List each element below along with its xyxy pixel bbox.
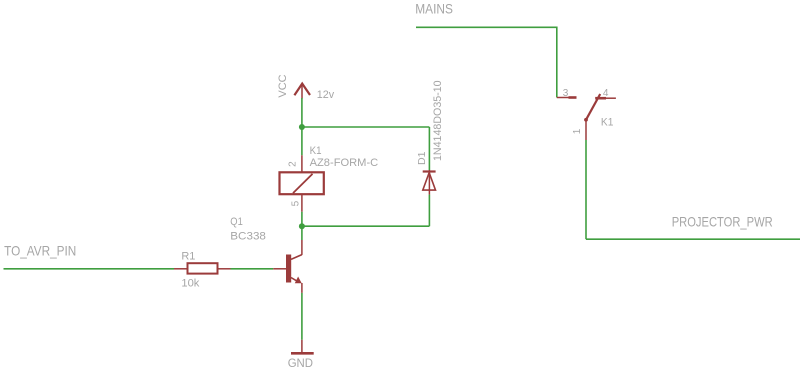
wire diode column top — [428, 127, 430, 170]
svg-text:MAINS: MAINS — [415, 0, 453, 16]
svg-text:K1: K1 — [310, 145, 322, 157]
wire resistor to base — [231, 268, 274, 270]
node junction top — [299, 124, 305, 130]
wire coil pin5 to collector — [301, 212, 303, 240]
svg-text:TO_AVR_PIN: TO_AVR_PIN — [4, 243, 76, 259]
svg-text:1N4148DO35-10: 1N4148DO35-10 — [432, 80, 444, 161]
svg-text:10k: 10k — [181, 278, 199, 290]
wire diode column bottom — [428, 195, 430, 227]
wire MAINS horizontal — [416, 26, 557, 28]
svg-text:Q1: Q1 — [230, 216, 243, 228]
wire PROJECTOR_PWR horizontal — [586, 238, 800, 240]
svg-text:5: 5 — [291, 200, 302, 206]
diode D1 — [423, 170, 436, 195]
svg-text:GND: GND — [288, 356, 314, 370]
svg-text:3: 3 — [563, 88, 569, 99]
transistor Q1 — [273, 240, 302, 293]
relay contact K1 — [557, 94, 616, 140]
wire base left — [4, 268, 175, 270]
wire contact pin1 down — [585, 140, 587, 239]
svg-text:AZ8-FORM-C: AZ8-FORM-C — [310, 157, 379, 169]
wire top horizontal to diode — [302, 126, 430, 128]
resistor R1 — [174, 263, 231, 273]
wire MAINS vertical — [556, 27, 558, 98]
svg-text:4: 4 — [603, 88, 609, 99]
relay coil K1 — [280, 155, 324, 212]
wire bottom horizontal — [302, 225, 430, 227]
svg-text:BC338: BC338 — [230, 231, 266, 243]
ground — [288, 340, 314, 370]
supply VCC — [277, 74, 310, 98]
svg-text:VCC: VCC — [277, 74, 289, 97]
node junction bottom — [299, 223, 305, 229]
svg-text:12v: 12v — [317, 89, 335, 101]
svg-text:R1: R1 — [181, 250, 195, 262]
svg-text:2: 2 — [288, 161, 299, 167]
wire emitter to ground — [301, 293, 303, 340]
wire VCC stem down to coil pin — [301, 98, 303, 155]
svg-text:PROJECTOR_PWR: PROJECTOR_PWR — [672, 213, 773, 229]
svg-text:K1: K1 — [601, 116, 614, 128]
svg-text:D1: D1 — [416, 151, 428, 165]
svg-text:1: 1 — [572, 128, 583, 134]
